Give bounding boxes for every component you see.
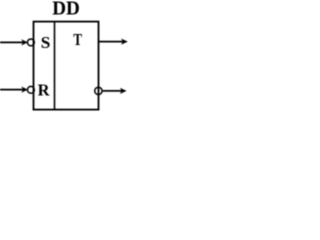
svg-text:R: R bbox=[38, 80, 51, 99]
svg-text:T: T bbox=[73, 30, 82, 49]
svg-text:DD: DD bbox=[52, 0, 80, 20]
svg-text:S: S bbox=[41, 33, 51, 52]
